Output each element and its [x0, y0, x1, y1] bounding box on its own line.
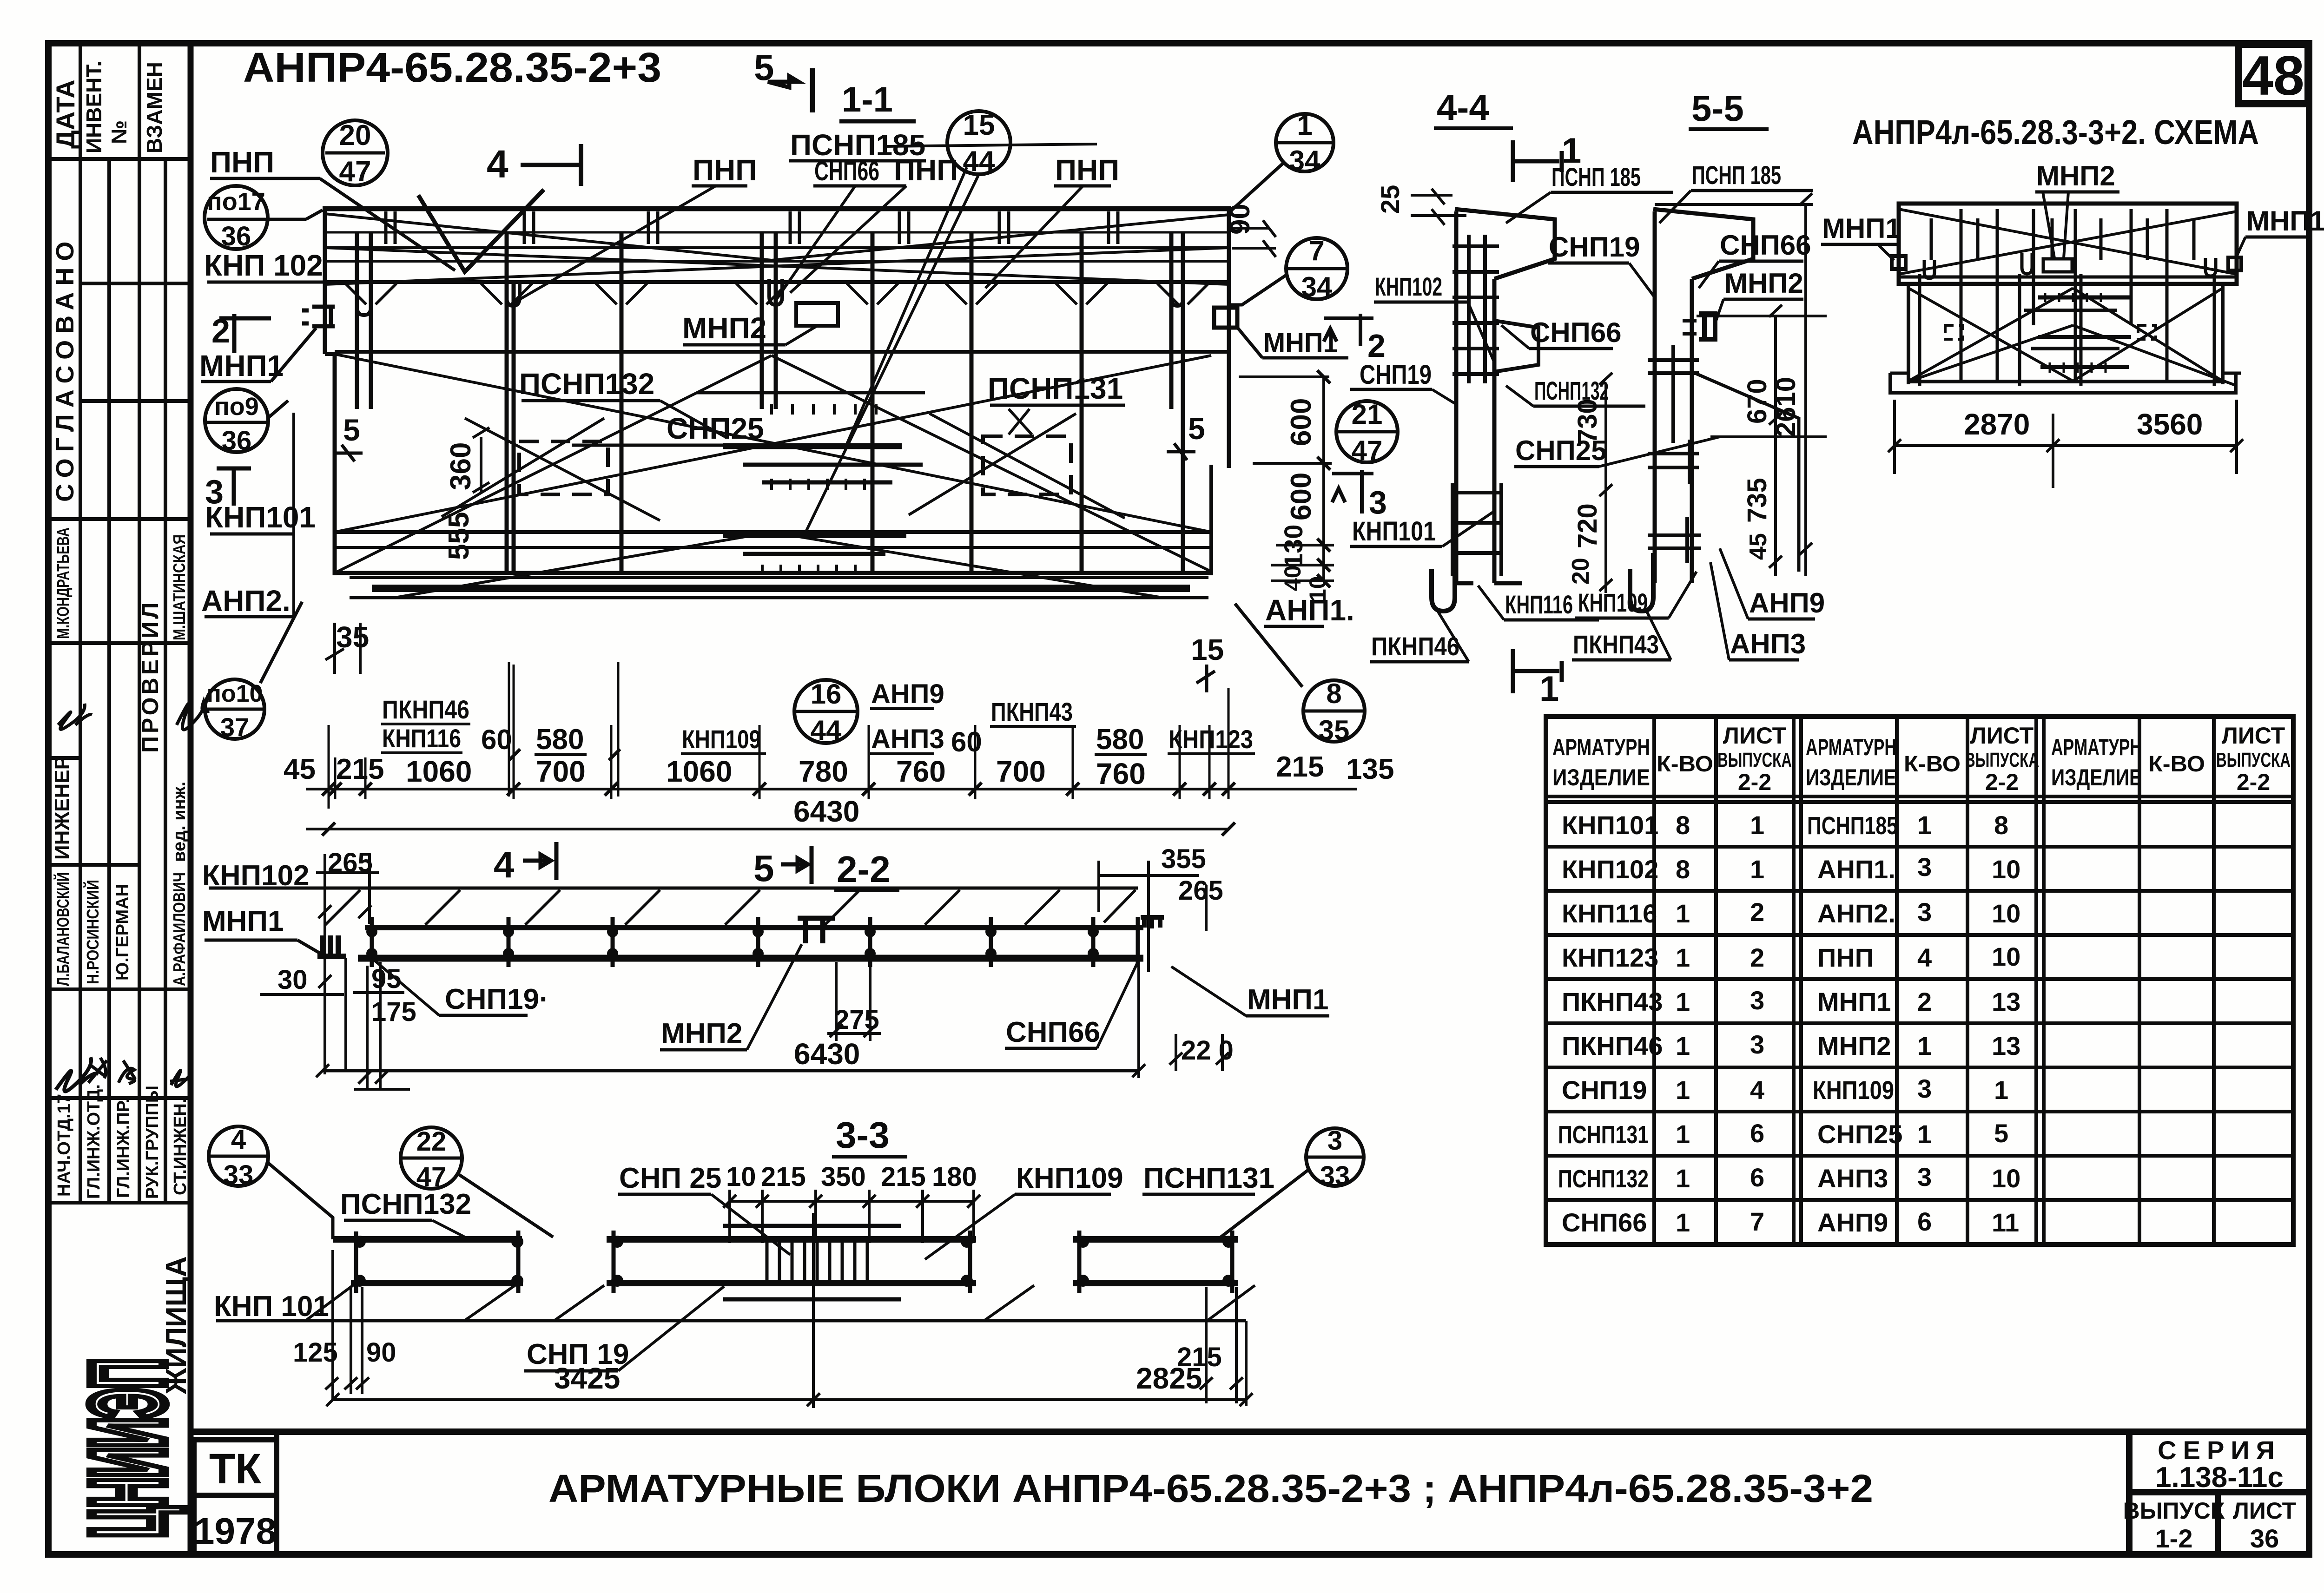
beam C bars [1073, 1236, 1238, 1243]
sidebar row line b [80, 399, 191, 403]
plan U hooks [357, 293, 371, 315]
svg-text:1: 1 [1917, 1031, 1932, 1060]
5-5 slant line [1692, 372, 1799, 572]
plan bottom edge [335, 571, 1211, 575]
callout circle po10/37 [205, 679, 264, 739]
svg-text:730: 730 [1572, 399, 1603, 444]
schema body right edge [2221, 284, 2225, 384]
svg-text:КНП102: КНП102 [1562, 855, 1658, 884]
bottom title bar top line [191, 1428, 2309, 1435]
svg-text:СНП19: СНП19 [1549, 231, 1640, 263]
svg-text:1: 1 [1676, 1164, 1690, 1193]
svg-text:КНП116: КНП116 [382, 724, 461, 753]
hatch diagonals [325, 890, 1136, 925]
svg-text:10: 10 [1992, 942, 2020, 971]
svg-text:37: 37 [220, 712, 249, 742]
svg-text:90: 90 [366, 1337, 396, 1368]
5-5 lower detail [1648, 517, 1701, 563]
callout circle po17/36 [205, 186, 268, 249]
svg-text:МНП1: МНП1 [1263, 327, 1338, 358]
svg-text:760: 760 [1096, 757, 1146, 790]
svg-text:ВЗАМЕН: ВЗАМЕН [142, 62, 166, 153]
svg-text:48: 48 [2242, 45, 2304, 107]
svg-text:АРМАТУРНЫЕ БЛОКИ АНПР4-65.28.3: АРМАТУРНЫЕ БЛОКИ АНПР4-65.28.35-2+3 ; АН… [548, 1467, 1873, 1510]
MNP2 pi bracket [798, 918, 835, 943]
svg-text:АНП9: АНП9 [1817, 1208, 1888, 1237]
sidebar signature 1 [58, 704, 92, 730]
svg-text:1: 1 [1917, 1119, 1932, 1149]
svg-text:КНП 102: КНП 102 [204, 249, 323, 282]
leader to circle 8/35 [1235, 604, 1302, 687]
hatch leader diagonals [307, 1284, 1255, 1320]
sidebar row line g [48, 987, 191, 991]
svg-text:3: 3 [1917, 897, 1932, 927]
svg-text:4: 4 [231, 1125, 246, 1155]
callout circle 21/47 [1336, 401, 1398, 462]
svg-text:ПСНП131: ПСНП131 [1143, 1162, 1274, 1194]
leader to circle po10/37 [260, 602, 302, 683]
svg-text:30: 30 [277, 965, 308, 995]
svg-text:350: 350 [821, 1162, 866, 1192]
svg-text:ПКНП46: ПКНП46 [1371, 632, 1459, 661]
svg-text:700: 700 [536, 755, 586, 788]
svg-text:АНП3: АНП3 [1730, 628, 1806, 659]
callout circle 3/33 [1306, 1128, 1364, 1186]
svg-text:1: 1 [1676, 1119, 1690, 1149]
svg-text:АНПР4-65.28.35-2+3: АНПР4-65.28.35-2+3 [243, 45, 661, 91]
center rebar cluster bottom [723, 535, 906, 575]
beam top chord [365, 925, 1143, 930]
5-5 mid rungs 2 [1648, 440, 1699, 484]
schema MNP1 plate right [2228, 257, 2241, 270]
center rebar cluster top [697, 393, 925, 490]
plan corner triangles under band [345, 283, 1208, 304]
svg-text:ЛИСТ: ЛИСТ [2233, 1498, 2296, 1524]
svg-text:А.РАФАИЛОВИЧ: А.РАФАИЛОВИЧ [170, 872, 189, 986]
svg-text:ПНП: ПНП [693, 153, 757, 187]
svg-text:по17: по17 [207, 188, 265, 216]
svg-text:МНП2: МНП2 [2036, 160, 2115, 191]
dim ticks [322, 783, 1235, 796]
4-4 column verticals [1456, 211, 1494, 583]
svg-text:М.КОНДРАТЬЕВА: М.КОНДРАТЬЕВА [53, 527, 73, 639]
svg-text:АНП1.: АНП1. [1265, 593, 1354, 627]
beam B center hatch [767, 1237, 867, 1281]
callout circle 16/44 [794, 680, 858, 743]
svg-text:1060: 1060 [406, 755, 472, 788]
beam studs with dots [372, 917, 1138, 967]
svg-text:СНП 25: СНП 25 [619, 1162, 721, 1194]
plan lower line 1 [335, 530, 1211, 534]
sidebar row line h [48, 1096, 191, 1100]
schema dim line [1895, 444, 2237, 447]
svg-text:1: 1 [1297, 110, 1312, 141]
plan left edge lower [333, 352, 337, 575]
beam B bars [607, 1236, 976, 1243]
schema center cluster [2024, 293, 2131, 373]
table column lines [1652, 717, 1656, 1244]
svg-text:по10: по10 [206, 680, 263, 707]
parts table grid [1546, 717, 2293, 1244]
svg-text:ЛИСТ: ЛИСТ [1970, 723, 2033, 749]
svg-text:6: 6 [1917, 1207, 1932, 1236]
svg-text:СЕРИЯ: СЕРИЯ [2158, 1435, 2281, 1465]
dashed opening right [983, 436, 1071, 494]
svg-text:1: 1 [1750, 855, 1764, 884]
callout circle 20/47 [323, 120, 388, 185]
svg-text:КНП102: КНП102 [1375, 272, 1442, 301]
TK box [194, 1440, 277, 1495]
svg-text:КНП109: КНП109 [1016, 1162, 1123, 1194]
top thin chord [209, 887, 1138, 890]
sidebar column line 4 [164, 159, 167, 1203]
svg-text:1: 1 [1750, 810, 1764, 840]
callout circle 4/33 [209, 1126, 268, 1186]
section mark 3 right [1332, 470, 1373, 513]
svg-text:3560: 3560 [2137, 408, 2203, 441]
svg-text:К-ВО: К-ВО [1904, 752, 1961, 777]
callout circle po9/36 [205, 389, 268, 452]
svg-text:ПСНП 185: ПСНП 185 [1552, 162, 1641, 191]
schema bottom foot [1890, 373, 2236, 393]
svg-text:15: 15 [1191, 633, 1224, 666]
sidebar column line 2 [107, 159, 111, 1203]
callout circle 7/34 [1286, 238, 1347, 299]
svg-text:580: 580 [536, 724, 584, 756]
svg-text:125: 125 [293, 1337, 338, 1368]
svg-text:ДАТА: ДАТА [51, 79, 80, 149]
dim line 6430 bottom [323, 1069, 1139, 1073]
svg-text:22 0: 22 0 [1181, 1035, 1234, 1066]
main dimension line 6430 parts [306, 788, 1357, 790]
svg-text:21: 21 [1352, 399, 1383, 430]
svg-text:СНП66: СНП66 [814, 156, 879, 186]
5-5 top cap [1653, 209, 1753, 279]
4-4 mid plate [1494, 321, 1538, 372]
4-4 top cap [1455, 209, 1555, 279]
svg-text:СНП66: СНП66 [1562, 1208, 1647, 1237]
svg-text:КНП101: КНП101 [205, 500, 316, 534]
svg-text:ПНП: ПНП [1817, 943, 1874, 972]
svg-text:5: 5 [753, 848, 774, 889]
svg-text:2825: 2825 [1136, 1362, 1202, 1395]
svg-text:РУК.ГРУППЫ: РУК.ГРУППЫ [143, 1086, 162, 1199]
plan left edge upper [323, 209, 327, 354]
svg-text:4: 4 [494, 844, 515, 885]
svg-text:7: 7 [1309, 235, 1324, 266]
svg-text:3425: 3425 [554, 1362, 620, 1395]
MNP1 bracket left [302, 307, 335, 326]
svg-text:3: 3 [1917, 852, 1932, 882]
svg-text:3: 3 [1917, 1162, 1932, 1191]
svg-text:36: 36 [222, 426, 252, 456]
svg-text:1: 1 [1539, 669, 1559, 709]
svg-text:Ю.ГЕРМАН: Ю.ГЕРМАН [113, 884, 132, 981]
svg-text:ИНЖЕНЕР: ИНЖЕНЕР [51, 756, 73, 860]
svg-text:СНП66: СНП66 [1530, 317, 1622, 348]
svg-text:2-2: 2-2 [1738, 769, 1771, 795]
schema diagonals [1899, 209, 2237, 386]
svg-text:8: 8 [1676, 855, 1690, 884]
schema inner line [1899, 276, 2237, 279]
leader KNP101 to 4-4 [1442, 511, 1494, 546]
svg-text:МНП2: МНП2 [682, 311, 766, 345]
callout circle 1/34 [1276, 114, 1334, 171]
svg-text:36: 36 [221, 221, 251, 251]
svg-text:КНП101: КНП101 [1562, 810, 1658, 840]
sidebar row line f [48, 863, 139, 867]
svg-text:МНП1: МНП1 [199, 349, 284, 382]
svg-text:7: 7 [1750, 1207, 1764, 1236]
svg-text:АНП3: АНП3 [1817, 1164, 1888, 1193]
svg-text:ТК: ТК [209, 1445, 262, 1493]
page number box 48 [2238, 44, 2308, 104]
svg-text:3: 3 [1750, 1030, 1764, 1059]
svg-text:5: 5 [343, 413, 360, 447]
svg-text:ПКНП46: ПКНП46 [382, 695, 469, 724]
svg-text:КНП123: КНП123 [1169, 724, 1253, 754]
4-4 ladder rungs lower [1452, 483, 1501, 576]
svg-text:34: 34 [1301, 271, 1333, 303]
leader SNP19 to 4-4 [1432, 389, 1456, 404]
svg-text:МНП1: МНП1 [1817, 987, 1891, 1016]
sidebar row line c [48, 517, 191, 521]
schema small squares [1945, 325, 1963, 339]
plan bottom band thick bar [372, 585, 1190, 592]
svg-text:ИЗДЕЛИЕ: ИЗДЕЛИЕ [1806, 764, 1896, 790]
svg-text:700: 700 [996, 755, 1046, 788]
svg-text:СТ.ИНЖЕН.: СТ.ИНЖЕН. [171, 1099, 190, 1195]
sidebar column line 1 [79, 43, 82, 1203]
4-4 bottom foot [1452, 581, 1522, 586]
svg-text:720: 720 [1572, 503, 1603, 548]
svg-text:КНП 101: КНП 101 [214, 1290, 329, 1323]
dashed opening left [519, 441, 608, 494]
svg-text:1: 1 [1676, 1208, 1690, 1237]
svg-text:600: 600 [1285, 473, 1317, 520]
svg-text:ПСНП131: ПСНП131 [1558, 1121, 1649, 1149]
svg-text:ПСНП132: ПСНП132 [519, 367, 654, 401]
svg-text:1060: 1060 [666, 755, 732, 788]
4-4 ladder rungs upper [1452, 235, 1499, 383]
svg-text:АРМАТУРН: АРМАТУРН [1806, 734, 1896, 760]
svg-text:13: 13 [1992, 1031, 2020, 1060]
svg-text:15: 15 [963, 109, 995, 141]
svg-text:КНП109: КНП109 [1578, 588, 1648, 617]
svg-text:АРМАТУРН: АРМАТУРН [2051, 734, 2142, 760]
plan right edge [1227, 209, 1231, 468]
svg-text:АНП9: АНП9 [871, 679, 944, 709]
svg-text:44: 44 [811, 715, 842, 746]
svg-text:275: 275 [834, 1005, 879, 1035]
svg-text:47: 47 [339, 156, 371, 188]
svg-text:1: 1 [1676, 987, 1690, 1016]
svg-text:ПСНП131: ПСНП131 [988, 372, 1123, 405]
svg-text:ЛИСТ: ЛИСТ [2222, 723, 2285, 749]
plan mid line [335, 350, 1229, 354]
beam bottom chord [358, 955, 1143, 962]
svg-text:ПСНП132: ПСНП132 [340, 1188, 471, 1220]
extension line left [292, 413, 295, 617]
label KNP116 ref [1669, 572, 1697, 618]
svg-text:180: 180 [932, 1162, 977, 1192]
plan studs [357, 231, 1183, 573]
svg-text:ВЫПУСК: ВЫПУСК [2123, 1498, 2225, 1524]
svg-text:КНП116: КНП116 [1562, 899, 1657, 928]
sidebar row line a [80, 282, 191, 285]
svg-text:МНП1: МНП1 [1247, 984, 1328, 1016]
svg-text:ПНП: ПНП [210, 145, 274, 179]
svg-text:1.138-11с: 1.138-11с [2155, 1461, 2284, 1494]
svg-text:215: 215 [336, 753, 384, 785]
svg-text:60: 60 [481, 724, 512, 755]
svg-text:МНП1: МНП1 [2246, 205, 2324, 237]
svg-text:5: 5 [1994, 1119, 2008, 1148]
svg-text:735: 735 [1742, 478, 1772, 523]
sidebar right edge [188, 43, 194, 1554]
svg-text:10: 10 [1992, 899, 2020, 928]
plan top edge [323, 206, 1231, 211]
svg-text:КНП109: КНП109 [682, 724, 761, 754]
svg-text:130: 130 [1279, 525, 1308, 568]
svg-text:2-2: 2-2 [1985, 769, 2019, 795]
plan bottom band bottom [350, 596, 1208, 599]
dim line 6430 [306, 828, 1228, 830]
svg-text:СНП19: СНП19 [1562, 1075, 1647, 1105]
svg-text:Н.РОСИНСКИЙ: Н.РОСИНСКИЙ [83, 880, 102, 984]
svg-text:33: 33 [1320, 1161, 1350, 1191]
svg-text:16: 16 [811, 678, 842, 710]
svg-text:МНП1: МНП1 [1822, 213, 1901, 244]
svg-text:8: 8 [1676, 810, 1690, 840]
sidebar header row line [48, 157, 191, 161]
plan top band stud ticks [386, 211, 1118, 244]
svg-text:3: 3 [1327, 1126, 1342, 1156]
svg-text:2: 2 [1750, 897, 1764, 927]
svg-text:2-2: 2-2 [837, 849, 891, 890]
svg-text:35: 35 [336, 620, 369, 654]
sidebar signatures row [56, 1057, 99, 1092]
svg-text:ПНП: ПНП [894, 153, 958, 187]
schema top band [1899, 204, 2237, 284]
svg-text:90: 90 [1224, 204, 1255, 235]
schema U hooks [1924, 260, 1934, 278]
svg-text:1: 1 [1676, 1075, 1690, 1105]
beam B extra bars [723, 1224, 901, 1228]
plan band line 1 [325, 246, 1229, 249]
svg-text:10: 10 [726, 1162, 756, 1192]
callout V arrow [418, 190, 544, 272]
sidebar row line d [48, 641, 191, 645]
svg-text:5-5: 5-5 [1691, 88, 1744, 129]
section mark 2 right [1324, 314, 1373, 346]
TSNIIEP logo [69, 1359, 186, 1538]
svg-text:2: 2 [1367, 328, 1386, 364]
svg-text:ПСНП132: ПСНП132 [1558, 1165, 1649, 1193]
svg-text:№: № [107, 120, 131, 144]
svg-text:ПСНП185: ПСНП185 [1807, 812, 1898, 840]
5-5 mid rungs 1 [1648, 345, 1699, 443]
svg-text:33: 33 [224, 1160, 254, 1190]
center axis [812, 1213, 815, 1408]
callout circle 8/35 [1303, 680, 1365, 742]
plan band line 0 [325, 231, 1229, 234]
svg-text:МНП2: МНП2 [661, 1018, 742, 1050]
sidebar row line i [48, 1201, 191, 1205]
svg-text:10: 10 [1992, 1164, 2020, 1193]
svg-text:355: 355 [1161, 844, 1206, 874]
left Sh bracket [317, 935, 346, 956]
svg-text:КНП116: КНП116 [1505, 590, 1573, 619]
dim 360 vertical [473, 428, 489, 493]
callout circle 15/44 [947, 111, 1010, 174]
svg-text:360: 360 [445, 442, 477, 490]
section mark 1 bottom [1513, 649, 1562, 693]
svg-text:Л.БАЛАНОВСКИЙ: Л.БАЛАНОВСКИЙ [53, 872, 73, 986]
svg-text:АНП1.: АНП1. [1817, 855, 1895, 884]
svg-text:ПКНП46: ПКНП46 [1562, 1031, 1663, 1060]
5-5 MNP2 bracket [1699, 314, 1715, 339]
svg-text:215: 215 [761, 1162, 806, 1192]
svg-text:8: 8 [1326, 678, 1341, 709]
plan long diagonals [325, 214, 1229, 598]
svg-text:ПРОВЕРИЛ: ПРОВЕРИЛ [137, 600, 163, 753]
svg-text:АНП3: АНП3 [871, 724, 944, 754]
svg-text:К-ВО: К-ВО [2148, 752, 2205, 777]
MNP2 plate [796, 303, 838, 326]
schema MNP2 plate [2043, 259, 2072, 272]
svg-text:6430: 6430 [794, 1037, 860, 1071]
svg-text:ВЫПУСКА: ВЫПУСКА [1965, 749, 2039, 771]
svg-text:МНП1: МНП1 [202, 905, 284, 937]
svg-text:13: 13 [1992, 987, 2020, 1016]
right pi bracket [1141, 917, 1164, 928]
svg-text:4: 4 [1917, 943, 1932, 972]
svg-text:ГЛ.ИНЖ.ОТД.: ГЛ.ИНЖ.ОТД. [84, 1084, 104, 1199]
svg-text:КНП101: КНП101 [1352, 516, 1436, 546]
svg-text:4: 4 [1750, 1075, 1764, 1105]
svg-text:600: 600 [1285, 398, 1317, 446]
plan right edge lower [1209, 465, 1213, 575]
svg-text:СНП66: СНП66 [1720, 230, 1811, 261]
svg-text:45: 45 [1745, 533, 1772, 560]
schema studs [1920, 209, 2214, 386]
svg-text:215: 215 [1276, 751, 1324, 783]
svg-text:СНП25: СНП25 [1817, 1119, 1902, 1149]
svg-text:ПКНП43: ПКНП43 [991, 697, 1073, 726]
plan left notch [325, 354, 335, 400]
svg-text:780: 780 [799, 755, 848, 788]
svg-text:3: 3 [1369, 484, 1387, 520]
svg-text:555: 555 [443, 512, 475, 560]
svg-text:2: 2 [1750, 943, 1764, 972]
svg-text:34: 34 [1289, 145, 1320, 176]
svg-text:ПСНП 185: ПСНП 185 [1692, 160, 1781, 190]
svg-text:4: 4 [487, 142, 508, 186]
svg-text:АНПР4л-65.28.3-3+2. СХЕМА: АНПР4л-65.28.3-3+2. СХЕМА [1852, 113, 2259, 151]
svg-text:СНП19: СНП19 [1360, 360, 1432, 390]
svg-text:670: 670 [1742, 379, 1772, 424]
plan band line 2 [325, 260, 1229, 263]
sidebar signature 2 [177, 702, 209, 730]
table header bottom double line [1546, 795, 2293, 798]
5-5 bottom hook [1630, 553, 1653, 611]
svg-text:СНП25: СНП25 [667, 412, 764, 445]
svg-text:5: 5 [1188, 411, 1205, 446]
svg-text:СОГЛАСОВАНО: СОГЛАСОВАНО [51, 235, 79, 502]
svg-text:1-1: 1-1 [842, 80, 893, 119]
svg-text:АРМАТУРН: АРМАТУРН [1552, 734, 1650, 760]
